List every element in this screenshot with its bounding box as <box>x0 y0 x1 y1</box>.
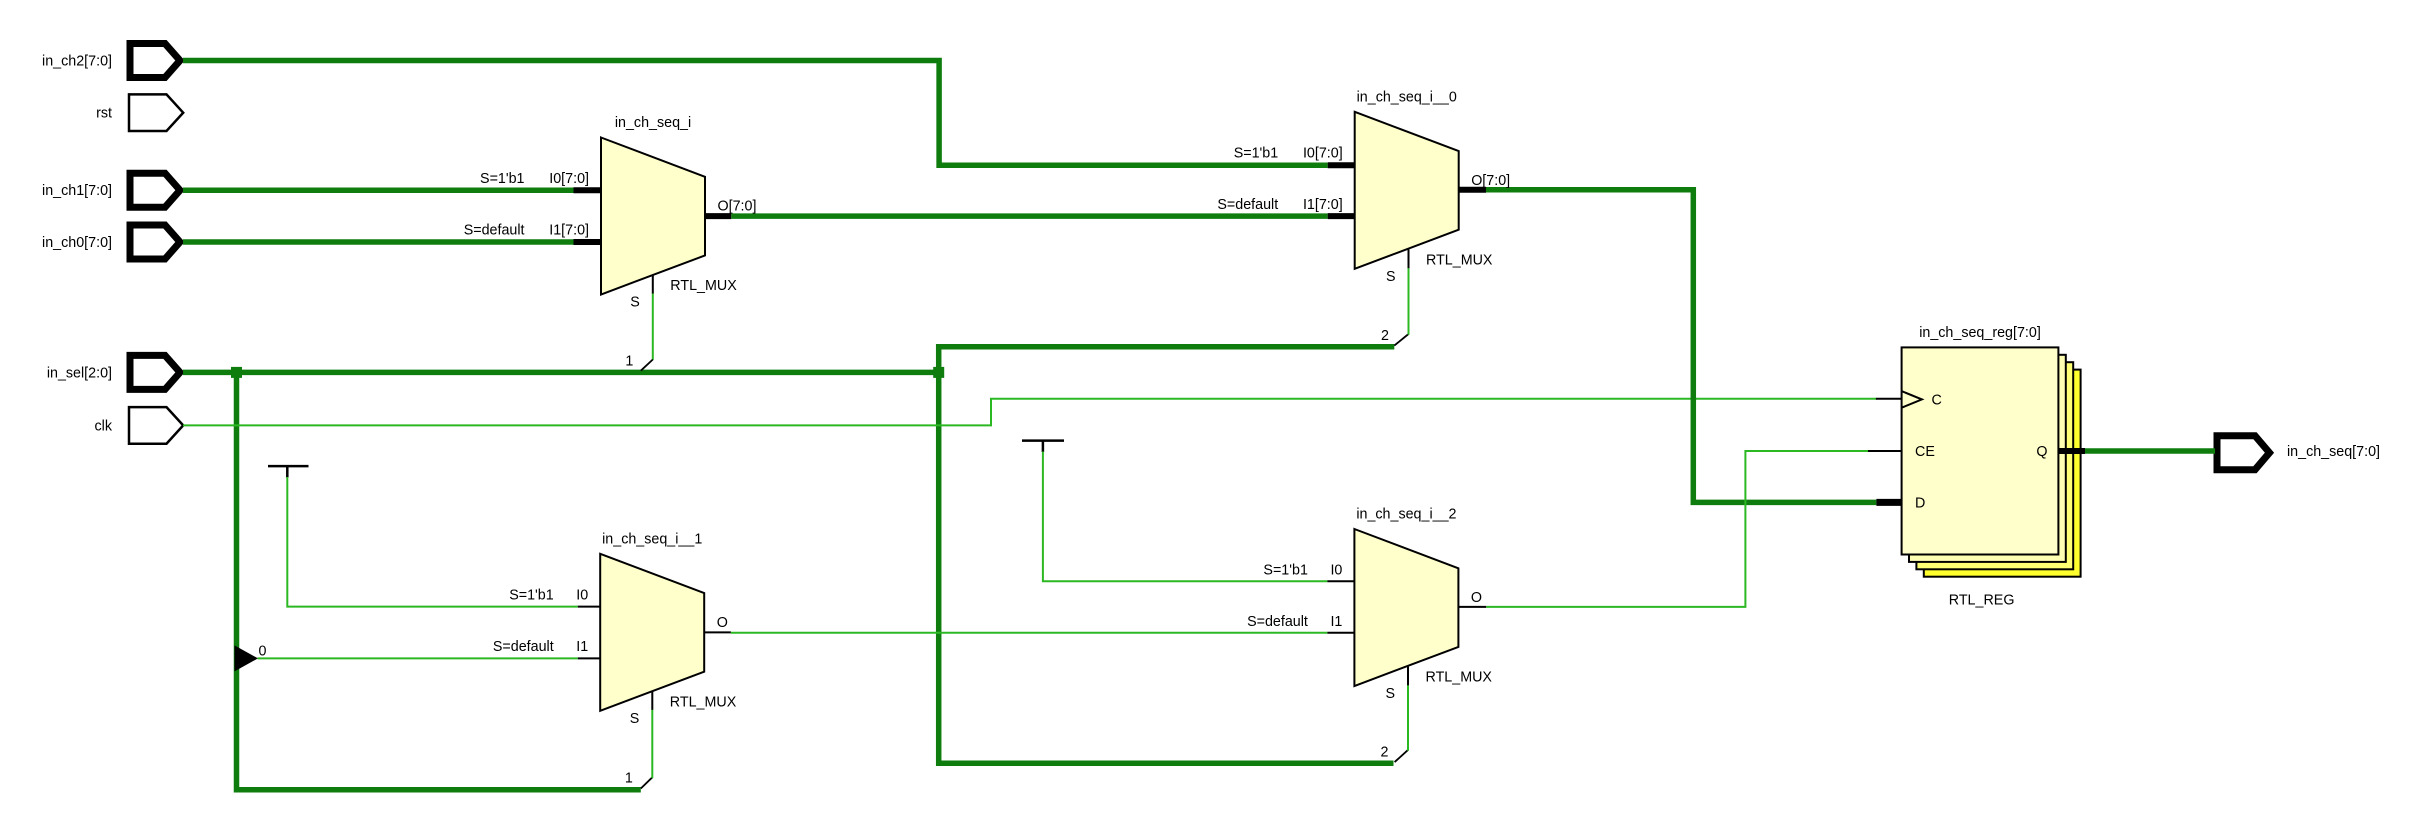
svg-text:I1[7:0]: I1[7:0] <box>1303 197 1343 213</box>
svg-text:S=default: S=default <box>1247 614 1308 630</box>
svg-text:1: 1 <box>625 771 633 787</box>
wire net in_ch1 (port to mux in_ch_seq_i I0) <box>183 187 574 193</box>
clock input triangle of register <box>1902 391 1922 408</box>
svg-text:in_ch_seq_reg[7:0]: in_ch_seq_reg[7:0] <box>1919 325 2041 341</box>
svg-text:O: O <box>717 615 728 631</box>
svg-text:RTL_MUX: RTL_MUX <box>670 694 737 710</box>
svg-text:in_ch2[7:0]: in_ch2[7:0] <box>42 54 112 70</box>
wire net in_ch_seq_i__0_n_0 (mux2 O to register D) <box>1486 190 1876 503</box>
input port in_ch2[7:0] <box>130 44 180 78</box>
svg-text:S=default: S=default <box>493 639 554 655</box>
svg-text:S=default: S=default <box>464 223 525 239</box>
svg-text:in_ch_seq_i__1: in_ch_seq_i__1 <box>602 531 702 547</box>
svg-text:RTL_MUX: RTL_MUX <box>1426 670 1493 686</box>
svg-text:in_ch_seq[7:0]: in_ch_seq[7:0] <box>2287 444 2380 460</box>
svg-text:S=1'b1: S=1'b1 <box>509 588 554 604</box>
svg-text:0: 0 <box>259 644 267 660</box>
output port in_ch_seq[7:0] <box>2217 436 2270 470</box>
pin stub I1 of in_ch_seq_i__1 <box>578 657 601 659</box>
svg-text:S: S <box>630 295 640 311</box>
svg-text:1: 1 <box>625 353 633 369</box>
bus rip slant to in_ch_seq_i S <box>641 360 653 371</box>
input port in_ch0[7:0] <box>130 225 180 259</box>
svg-text:I0: I0 <box>576 588 588 604</box>
svg-text:in_ch_seq_i__0: in_ch_seq_i__0 <box>1357 89 1457 105</box>
svg-text:I0[7:0]: I0[7:0] <box>1303 146 1343 162</box>
pin stub S of in_ch_seq_i__2 <box>1407 667 1409 686</box>
wire net in_ch_seq (register Q to output port) <box>2085 448 2215 454</box>
svg-text:S=1'b1: S=1'b1 <box>1263 563 1308 579</box>
pin stub O of in_ch_seq_i__2 <box>1458 606 1486 608</box>
pin stub I1[7:0] of in_ch_seq_i <box>574 239 603 245</box>
bus rip slant to in_ch_seq_i__0 S <box>1394 334 1408 346</box>
wire net in_ch0 (port to mux in_ch_seq_i I1) <box>183 239 574 245</box>
mux in_ch_seq_i__1 (RTL_MUX) <box>600 554 704 711</box>
svg-text:in_ch1[7:0]: in_ch1[7:0] <box>42 183 112 199</box>
svg-text:in_ch_seq_i__2: in_ch_seq_i__2 <box>1356 507 1456 523</box>
svg-text:S: S <box>1385 686 1395 702</box>
svg-text:S=1'b1: S=1'b1 <box>480 171 525 187</box>
input port in_sel[2:0] <box>130 355 180 389</box>
svg-text:RTL_REG: RTL_REG <box>1949 593 2015 609</box>
svg-text:I1: I1 <box>576 639 588 655</box>
bus rip slant to in_ch_seq_i__1 S <box>641 777 653 788</box>
wire S of in_ch_seq_i__1 <box>651 710 653 779</box>
wire in_sel branch down-right to mux in_ch_seq_i__2 S <box>939 372 1394 763</box>
register in_ch_seq_reg[7:0] stacked sheets <box>1924 370 2081 577</box>
svg-text:RTL_MUX: RTL_MUX <box>1426 252 1493 268</box>
svg-text:2: 2 <box>1381 744 1389 760</box>
svg-text:in_ch0[7:0]: in_ch0[7:0] <box>42 235 112 251</box>
svg-text:RTL_MUX: RTL_MUX <box>670 278 737 294</box>
wire S of in_ch_seq_i <box>652 293 654 360</box>
pin stub I1[7:0] of in_ch_seq_i__0 <box>1328 213 1356 219</box>
svg-text:Q: Q <box>2036 444 2047 460</box>
mux in_ch_seq_i__0 (RTL_MUX) <box>1355 112 1459 269</box>
pin stub Q of register <box>2058 448 2085 454</box>
tie-off T symbol for in_ch_seq_i__2 I0 <box>1022 439 1064 442</box>
wire S of in_ch_seq_i__2 <box>1407 685 1409 751</box>
wire net in_ch_seq_i__1_n_0 (mux3 O to mux4 I1) <box>731 632 1328 634</box>
svg-text:C: C <box>1932 392 1942 408</box>
wire in_sel[0] to in_ch_seq_i__1 I1 <box>258 657 578 659</box>
svg-text:rst: rst <box>96 106 112 122</box>
svg-text:S=default: S=default <box>1217 197 1278 213</box>
pin stub I0 of in_ch_seq_i__2 <box>1327 580 1355 582</box>
pin stub S of in_ch_seq_i__1 <box>651 691 653 709</box>
svg-text:O: O <box>1471 590 1482 606</box>
wire S of in_ch_seq_i__0 <box>1408 268 1410 335</box>
wire net in_ch_seq_i__2_n_0 (mux4 O to register CE) <box>1486 451 1868 607</box>
bus rip slant to in_ch_seq_i__2 S <box>1395 750 1408 762</box>
pin stub O of in_ch_seq_i__1 <box>704 631 731 633</box>
svg-text:CE: CE <box>1915 444 1935 460</box>
svg-text:I1[7:0]: I1[7:0] <box>549 223 589 239</box>
pin stub C of register <box>1876 398 1902 400</box>
svg-text:S: S <box>1386 269 1396 285</box>
junction on in_sel at first branch <box>231 367 242 378</box>
pin stub CE of register <box>1868 450 1902 452</box>
svg-text:in_sel[2:0]: in_sel[2:0] <box>47 365 112 381</box>
wire in_sel branch up to mux in_ch_seq_i__0 S <box>939 347 1395 373</box>
wire net in_ch2 (port to mux in_ch_seq_i__0 I0) <box>183 61 1328 166</box>
svg-text:I0: I0 <box>1330 563 1342 579</box>
pin stub I1 of in_ch_seq_i__2 <box>1327 632 1355 634</box>
svg-text:D: D <box>1915 495 1925 511</box>
pin stub O[7:0] of in_ch_seq_i__0 <box>1459 187 1486 193</box>
junction on in_sel at second branch <box>933 367 944 378</box>
svg-text:2: 2 <box>1381 328 1389 344</box>
wire net in_sel (port to junction) <box>183 370 939 376</box>
wire net clk (port to register C) <box>183 399 1877 426</box>
mux in_ch_seq_i (RTL_MUX) <box>601 138 705 295</box>
pin stub I0 of in_ch_seq_i__1 <box>578 606 601 608</box>
svg-text:S: S <box>630 711 640 727</box>
svg-text:clk: clk <box>95 418 113 434</box>
wire net in_ch_seq_i_n_0 (mux1 O to mux2 I1) <box>731 213 1327 219</box>
pin stub D of register <box>1876 499 1902 506</box>
svg-text:in_ch_seq_i: in_ch_seq_i <box>615 115 691 131</box>
pin stub S of in_ch_seq_i__0 <box>1408 249 1410 268</box>
svg-text:O[7:0]: O[7:0] <box>718 199 757 215</box>
register in_ch_seq_reg[7:0] (RTL_REG) body <box>1902 347 2059 554</box>
wire tie to in_ch_seq_i__1 I0 <box>287 477 578 607</box>
input port rst <box>129 94 183 131</box>
svg-text:I1: I1 <box>1330 614 1342 630</box>
pin stub I0[7:0] of in_ch_seq_i <box>574 187 603 193</box>
wire tie to in_ch_seq_i__2 I0 <box>1043 452 1328 582</box>
mux in_ch_seq_i__2 (RTL_MUX) <box>1354 529 1458 686</box>
wire in_sel branch down-left to mux in_ch_seq_i__1 S <box>237 372 641 789</box>
svg-text:I0[7:0]: I0[7:0] <box>549 171 589 187</box>
input port in_ch1[7:0] <box>130 173 180 207</box>
bus tap arrow in_sel[0] <box>235 645 259 671</box>
input port clk <box>129 407 183 444</box>
svg-text:S=1'b1: S=1'b1 <box>1234 146 1279 162</box>
tie-off T symbol for in_ch_seq_i__1 I0 <box>268 465 309 468</box>
svg-text:O[7:0]: O[7:0] <box>1471 173 1510 189</box>
pin stub I0[7:0] of in_ch_seq_i__0 <box>1328 162 1356 168</box>
pin stub O[7:0] of in_ch_seq_i <box>704 213 732 219</box>
pin stub S of in_ch_seq_i <box>652 275 654 293</box>
